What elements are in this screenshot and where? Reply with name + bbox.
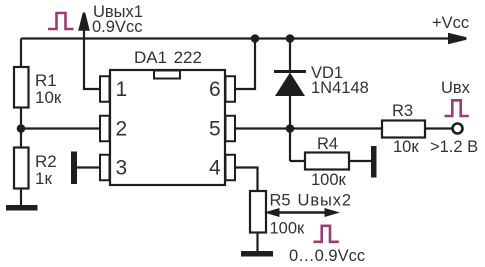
svg-text:>1.2 В: >1.2 В xyxy=(430,138,478,156)
junction dot rail / pin6 xyxy=(251,34,260,43)
wire pin 1 to Uvyh1 arrow xyxy=(84,28,100,89)
wire pin 4 to R5 top xyxy=(235,168,258,192)
svg-text:5: 5 xyxy=(209,118,221,141)
wire +Vcc rail xyxy=(21,37,450,39)
wire R3 to input terminal xyxy=(425,127,452,129)
svg-text:3: 3 xyxy=(116,157,128,180)
wire R1 top to rail xyxy=(20,39,22,68)
resistor R2 xyxy=(14,148,29,189)
wire pin 5 through node B to R3 xyxy=(235,127,382,129)
svg-text:1к: 1к xyxy=(35,169,52,188)
svg-text:Uвх: Uвх xyxy=(441,79,471,97)
resistor R5 (potentiometer) xyxy=(250,191,266,233)
ground (R2) xyxy=(6,205,38,211)
pulse symbol Uvyh2 xyxy=(314,226,339,242)
svg-text:0…0.9Vcc: 0…0.9Vcc xyxy=(289,247,365,265)
svg-text:+Vcc: +Vcc xyxy=(432,14,469,32)
wire node A to pin 2 xyxy=(21,127,100,129)
wire diode bottom to node B xyxy=(289,96,291,129)
wire R4 to chassis xyxy=(349,160,371,162)
node B junction dot xyxy=(286,124,295,133)
svg-text:2: 2 xyxy=(116,118,128,141)
pin 1 xyxy=(100,76,110,102)
ground (R5) xyxy=(241,251,273,257)
wire R5 bottom to ground xyxy=(256,233,258,252)
wiper double arrow xyxy=(276,211,328,213)
wire pin 6 to rail xyxy=(235,39,255,90)
pin 4 xyxy=(226,155,236,181)
wire diode top xyxy=(289,39,291,71)
svg-text:R4: R4 xyxy=(317,135,338,153)
pin 6 xyxy=(226,76,236,102)
node A junction dot xyxy=(17,124,26,133)
resistor R4 xyxy=(305,153,349,170)
svg-text:10к: 10к xyxy=(35,88,62,107)
IC notch xyxy=(154,71,180,79)
diode VD1 xyxy=(274,70,306,73)
IC DA1 body xyxy=(110,70,225,185)
arrow Uvyh1 xyxy=(78,13,90,31)
arrow +Vcc xyxy=(448,33,467,44)
pulse symbol Uvyh1 xyxy=(48,13,74,29)
chassis bar (pin 3) xyxy=(71,152,77,185)
svg-text:6: 6 xyxy=(209,78,221,101)
pin 5 xyxy=(226,116,236,142)
input terminal circle xyxy=(453,124,463,134)
wire R2 bottom to ground xyxy=(20,189,22,206)
resistor R3 xyxy=(382,121,425,138)
chassis bar (R4) xyxy=(371,146,377,178)
pin 2 xyxy=(100,116,110,142)
svg-text:100к: 100к xyxy=(270,220,306,238)
wire R1 bottom to node A xyxy=(20,108,22,148)
svg-text:R5: R5 xyxy=(270,192,291,210)
wire pin 3 to chassis xyxy=(77,166,100,168)
svg-text:1: 1 xyxy=(116,78,128,101)
svg-text:R3: R3 xyxy=(392,102,413,120)
svg-text:10к: 10к xyxy=(393,138,419,156)
svg-text:100к: 100к xyxy=(311,171,347,189)
svg-text:4: 4 xyxy=(209,157,221,180)
pulse symbol Uvh xyxy=(445,100,469,116)
wire node B down to R4 xyxy=(290,129,305,162)
pin 3 xyxy=(100,155,110,181)
svg-text:1N4148: 1N4148 xyxy=(311,79,369,97)
junction dot rail / diode xyxy=(286,34,295,43)
svg-text:Uвых2: Uвых2 xyxy=(298,192,352,210)
resistor R1 xyxy=(14,67,29,108)
svg-text:0.9Vcc: 0.9Vcc xyxy=(92,18,142,36)
